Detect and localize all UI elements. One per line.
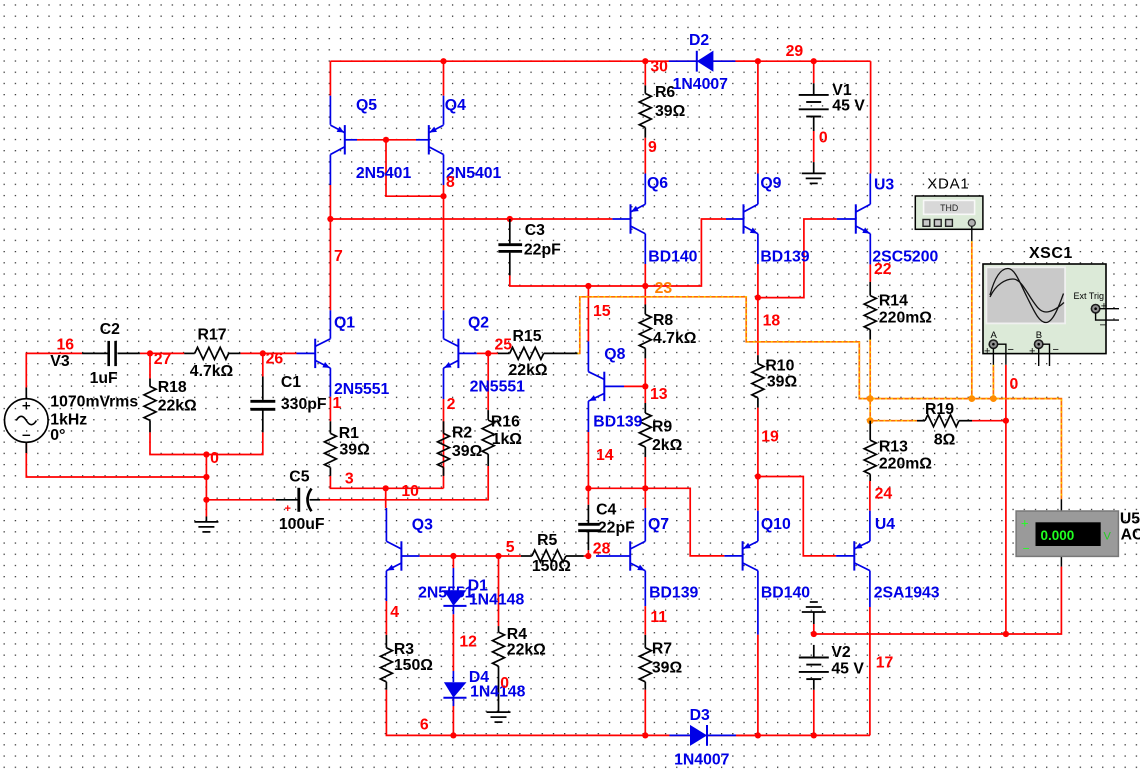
svg-text:1: 1 xyxy=(333,395,342,412)
svg-text:39Ω: 39Ω xyxy=(452,443,483,460)
wire Q9 collector to node 29 xyxy=(757,61,759,173)
svg-text:22kΩ: 22kΩ xyxy=(158,398,197,415)
svg-text:4: 4 xyxy=(390,604,399,621)
net label 30 xyxy=(650,59,668,76)
svg-text:+: + xyxy=(984,346,990,358)
resistor R9 xyxy=(639,403,651,457)
net label 7 xyxy=(334,248,343,265)
net label 24 xyxy=(875,485,893,502)
wire D1 top xyxy=(452,556,454,568)
svg-text:Q3: Q3 xyxy=(412,517,433,534)
net label 8 xyxy=(446,174,455,191)
svg-text:2: 2 xyxy=(447,396,456,413)
svg-text:1uF: 1uF xyxy=(90,370,118,387)
svg-text:U4: U4 xyxy=(875,516,895,533)
svg-text:R2: R2 xyxy=(452,424,472,441)
wire node 13 to Q8 base xyxy=(624,385,645,387)
wire R4 top xyxy=(498,556,500,626)
junction node 14 at Q8 emitter xyxy=(585,485,591,491)
svg-text:27: 27 xyxy=(154,351,172,368)
resistor R7 xyxy=(639,635,651,690)
svg-text:V3: V3 xyxy=(50,353,70,370)
wire R5 right to node 28 xyxy=(584,555,590,557)
wire node 27 to R17 xyxy=(150,352,184,354)
label R13 xyxy=(879,439,932,473)
svg-text:BD139: BD139 xyxy=(593,413,642,430)
wire Q1 emitter to R1 xyxy=(329,397,331,422)
wire +45V top rail node 30/29 xyxy=(330,60,870,62)
svg-text:1070mVrms: 1070mVrms xyxy=(50,393,138,410)
svg-text:−: − xyxy=(1008,344,1014,356)
net label 27 xyxy=(154,351,172,368)
svg-text:Q4: Q4 xyxy=(445,97,466,114)
transistor Q4 2N5401 xyxy=(416,96,444,185)
junction rail at Q10 xyxy=(755,732,761,738)
svg-text:39Ω: 39Ω xyxy=(652,660,683,677)
label D2 xyxy=(673,32,729,93)
net label 14 xyxy=(596,447,614,464)
diode D1 1N4148 xyxy=(443,568,466,614)
svg-text:39Ω: 39Ω xyxy=(767,373,798,390)
wire node 18 to U3 base xyxy=(758,219,837,298)
svg-text:+: + xyxy=(285,503,291,515)
capacitor C1 xyxy=(250,377,275,433)
junction node 3 at Q3 collector xyxy=(383,485,389,491)
net label 11 xyxy=(650,609,667,626)
transistor Q9 BD139 xyxy=(726,174,758,265)
net label 26 xyxy=(266,351,284,368)
resistor R8 xyxy=(639,305,651,359)
svg-text:19: 19 xyxy=(761,429,779,446)
svg-text:100uF: 100uF xyxy=(279,516,325,533)
junction node 5 at R4 xyxy=(495,553,501,559)
svg-text:24: 24 xyxy=(875,485,893,502)
wire C4 top to node 14 row xyxy=(587,488,589,505)
svg-text:U5: U5 xyxy=(1120,510,1140,527)
svg-text:Q6: Q6 xyxy=(647,175,668,192)
svg-text:BD139: BD139 xyxy=(649,584,698,601)
resistor R16 xyxy=(482,410,494,466)
wire node 19 to U4 base xyxy=(758,477,836,556)
diode D3 1N4007 xyxy=(669,725,736,746)
svg-text:0: 0 xyxy=(1010,376,1019,393)
svg-text:XSC1: XSC1 xyxy=(1029,245,1073,262)
svg-text:150Ω: 150Ω xyxy=(532,558,571,575)
label Q9 xyxy=(760,175,809,266)
svg-text:1N4148: 1N4148 xyxy=(469,592,525,609)
junction node 18 xyxy=(755,295,761,301)
junction orange at XDA1 xyxy=(968,395,975,402)
svg-text:Q1: Q1 xyxy=(334,314,355,331)
net label 9 xyxy=(648,139,657,156)
distortion analyzer XDA1 xyxy=(915,196,983,241)
svg-text:V: V xyxy=(1104,531,1112,543)
wire Q2 base to node 25 xyxy=(477,352,489,354)
svg-text:2N5551: 2N5551 xyxy=(334,381,390,398)
resistor R14 xyxy=(864,282,876,340)
junction node 8 xyxy=(440,193,446,199)
transistor Q7 BD139 xyxy=(596,508,645,606)
net label 5 xyxy=(506,539,515,556)
wire U4 collector to node 17 rail xyxy=(869,607,871,735)
wire C4 bottom to node 28 xyxy=(587,550,589,556)
wire Q4 collector to node 8 to Q2 collector xyxy=(443,185,445,310)
ground at V2 inverted xyxy=(802,602,826,624)
svg-text:16: 16 xyxy=(57,336,75,353)
svg-text:22: 22 xyxy=(874,261,892,278)
ground at V1 xyxy=(802,162,826,183)
svg-text:Q9: Q9 xyxy=(760,175,781,192)
wire Q9 emitter to node 18 xyxy=(757,264,759,298)
wire V3 bottom to ground node xyxy=(26,443,206,477)
wire R10 bottom to node 19 xyxy=(757,408,759,477)
svg-text:1N4007: 1N4007 xyxy=(674,752,730,769)
svg-text:4.7kΩ: 4.7kΩ xyxy=(653,330,697,347)
wire Q7 emitter to R7 xyxy=(644,606,646,635)
wire orange R14 bottom drop xyxy=(869,340,871,399)
svg-text:6: 6 xyxy=(420,717,429,734)
net label 1 xyxy=(333,395,342,412)
wire ground row to meter minus xyxy=(814,567,1062,634)
junction rail at V2 xyxy=(811,732,817,738)
svg-text:330pF: 330pF xyxy=(281,396,327,413)
svg-text:+: + xyxy=(1021,516,1029,531)
svg-text:R18: R18 xyxy=(158,379,187,396)
net label 4 xyxy=(390,604,399,621)
svg-text:D2: D2 xyxy=(689,32,709,49)
svg-text:7: 7 xyxy=(334,248,343,265)
wire V1 bottom to ground xyxy=(813,131,815,162)
svg-text:BD140: BD140 xyxy=(761,584,810,601)
junction node 26 xyxy=(260,350,266,356)
wire C5 to R16 bottom xyxy=(320,466,488,500)
label U4 xyxy=(874,516,940,601)
label Q2 xyxy=(468,314,525,395)
wire D4 bottom to rail xyxy=(452,699,454,736)
svg-text:22pF: 22pF xyxy=(598,519,635,536)
junction node 0 at C5 xyxy=(203,497,209,503)
svg-text:C3: C3 xyxy=(525,222,545,239)
battery V2 xyxy=(799,645,829,690)
svg-text:13: 13 xyxy=(650,386,668,403)
wire C3 bottom to node 23 row xyxy=(510,219,726,286)
svg-text:220mΩ: 220mΩ xyxy=(879,310,932,327)
transistor Q5 2N5401 xyxy=(330,96,357,185)
wire V2 plus to ground dot xyxy=(813,624,815,634)
junction node 7 at C3 xyxy=(507,216,513,222)
junction node 25 xyxy=(485,350,491,356)
svg-text:25: 25 xyxy=(495,336,513,353)
wire D2 right to node 29 xyxy=(735,60,758,62)
wire Q5 collector to node 7 rail xyxy=(329,185,331,219)
wire R18 bottom to node 0 row xyxy=(150,432,263,454)
label D1 xyxy=(468,577,525,608)
svg-text:Q7: Q7 xyxy=(648,516,669,533)
svg-text:R19: R19 xyxy=(925,401,954,418)
wire node 19 to Q10 emitter xyxy=(757,477,759,511)
wire Q3 collector to node 3 xyxy=(385,488,387,508)
oscilloscope XSC1 xyxy=(983,264,1119,366)
transistor Q2 2N5551 xyxy=(444,310,477,399)
svg-text:R15: R15 xyxy=(513,328,542,345)
svg-text:18: 18 xyxy=(763,312,781,329)
net label 28 xyxy=(593,541,611,558)
svg-text:2N5551: 2N5551 xyxy=(418,585,474,602)
label R8 xyxy=(653,312,697,347)
wire U3 emitter to R14 node 22 xyxy=(869,264,871,282)
svg-text:Q5: Q5 xyxy=(356,97,377,114)
svg-text:+: + xyxy=(1029,346,1035,358)
svg-text:−: − xyxy=(1023,542,1030,556)
wire output net orange from R15 to meter xyxy=(578,297,1062,499)
svg-text:4.7kΩ: 4.7kΩ xyxy=(190,363,234,380)
svg-text:2SA1943: 2SA1943 xyxy=(874,584,940,601)
svg-text:R10: R10 xyxy=(765,358,794,375)
svg-text:1kΩ: 1kΩ xyxy=(492,431,523,448)
svg-text:V2: V2 xyxy=(831,644,851,661)
wire orange to R19 left and R13 top xyxy=(870,399,917,421)
net label 6 xyxy=(420,717,429,734)
svg-text:14: 14 xyxy=(596,447,614,464)
junction node 29 at V1 xyxy=(811,58,817,64)
label Q8 xyxy=(593,346,642,430)
resistor R4 xyxy=(493,626,505,712)
wire orange XDA1 lead drop xyxy=(971,241,973,398)
svg-text:BD139: BD139 xyxy=(760,249,809,266)
wire Q3 base to node 5 row xyxy=(420,555,521,557)
svg-text:Q10: Q10 xyxy=(761,516,791,533)
svg-text:39Ω: 39Ω xyxy=(655,103,686,120)
svg-text:R1: R1 xyxy=(339,425,359,442)
label U5 meter xyxy=(1120,510,1140,543)
junction ground row at scope lead xyxy=(1003,631,1009,637)
net label 0 at scope xyxy=(1010,376,1019,393)
junction node 7 at Q5 collector xyxy=(327,216,333,222)
resistor R10 xyxy=(752,355,764,407)
net label 0 at R4 xyxy=(500,675,509,692)
junction Q4 emitter rail xyxy=(440,58,446,64)
transistor Q1 2N5551 xyxy=(297,310,331,396)
label V1 xyxy=(832,82,865,115)
junction rail at D4 xyxy=(450,732,456,738)
svg-text:R4: R4 xyxy=(507,626,527,643)
resistor R19 xyxy=(917,415,972,427)
svg-text:11: 11 xyxy=(650,609,667,626)
ground at R4 xyxy=(487,712,511,722)
wire node 27 down to R18 xyxy=(149,353,151,378)
ground at node 0 xyxy=(194,517,218,532)
transistor U4 2SA1943 xyxy=(836,511,870,607)
svg-text:0: 0 xyxy=(210,450,219,467)
svg-text:THD: THD xyxy=(940,203,958,213)
wire R8 bottom node 13 xyxy=(644,358,646,386)
junction rail at R7 xyxy=(642,732,648,738)
junction node 23 at Q8 xyxy=(585,283,591,289)
transistor Q6 BD140 xyxy=(612,174,645,265)
net label 2 xyxy=(447,396,456,413)
label R7 xyxy=(652,641,683,677)
wire R3 bottom to node 6 rail xyxy=(386,690,870,736)
label C2 xyxy=(90,321,121,387)
svg-text:220mΩ: 220mΩ xyxy=(879,456,932,473)
junction node 13 xyxy=(642,383,648,389)
label Q6 xyxy=(647,175,698,266)
svg-text:22kΩ: 22kΩ xyxy=(509,362,548,379)
resistor R1 xyxy=(324,421,336,476)
wire R7 bottom to rail xyxy=(644,690,646,736)
wire C2 to node 27 xyxy=(140,352,150,354)
svg-text:R14: R14 xyxy=(879,293,908,310)
label D3 xyxy=(674,707,730,768)
svg-text:0°: 0° xyxy=(50,427,65,444)
title XDA1 xyxy=(927,176,969,193)
label C3 xyxy=(524,222,561,258)
svg-text:2N5551: 2N5551 xyxy=(470,378,526,395)
net label 10 xyxy=(401,483,419,500)
label Q10 xyxy=(761,516,810,601)
label R9 xyxy=(652,419,683,455)
label R3 xyxy=(394,641,433,674)
junction node 5 at D1 xyxy=(450,553,456,559)
wire R6 bottom to Q6 emitter node 9 xyxy=(644,138,646,174)
wire Q7 collector to node 14 row xyxy=(644,488,646,508)
diode D2 1N4007 xyxy=(669,51,736,72)
svg-text:C1: C1 xyxy=(281,374,301,391)
AC source V3 xyxy=(5,388,49,454)
capacitor C4 xyxy=(578,505,600,550)
svg-text:26: 26 xyxy=(266,351,284,368)
polarized capacitor C5 xyxy=(276,488,320,515)
svg-text:22kΩ: 22kΩ xyxy=(507,642,546,659)
svg-text:R16: R16 xyxy=(491,413,520,430)
wire node 18 to R10 xyxy=(757,298,759,356)
resistor R15 xyxy=(498,347,578,359)
svg-text:R3: R3 xyxy=(394,641,414,658)
label V3 source xyxy=(50,353,138,444)
svg-text:2kΩ: 2kΩ xyxy=(652,437,683,454)
net label 17 xyxy=(876,655,894,672)
wire node 7 down to Q1 collector xyxy=(329,219,331,310)
svg-text:10: 10 xyxy=(401,483,419,500)
label Q3 xyxy=(412,517,474,602)
capacitor C3 xyxy=(498,219,522,275)
wire Q8 emitter to node 14 row xyxy=(587,432,589,488)
resistor R5 xyxy=(521,550,584,562)
wire node 0 to C5 xyxy=(206,499,276,501)
wire node 25 down to R16 xyxy=(487,353,489,410)
junction node 27 xyxy=(147,350,153,356)
junction orange at R19 left xyxy=(867,417,874,424)
svg-text:U3: U3 xyxy=(874,177,894,194)
label R6 xyxy=(655,84,686,120)
wire V2 minus to rail xyxy=(813,690,815,736)
svg-text:5: 5 xyxy=(506,539,515,556)
label R17 xyxy=(190,327,234,381)
label Q1 xyxy=(334,314,390,398)
junction ground row at V2 xyxy=(811,631,817,637)
net label 0 at R18 xyxy=(210,450,219,467)
svg-text:R9: R9 xyxy=(652,419,672,436)
label V2 xyxy=(831,644,864,678)
junction node 14 at R9 xyxy=(642,485,648,491)
resistor R17 xyxy=(184,347,240,359)
transistor U3 2SC5200 xyxy=(837,174,871,265)
label R2 xyxy=(452,424,483,460)
wire R6 top at node 30 xyxy=(644,61,646,85)
net label 25 xyxy=(495,336,513,353)
wire Q2 emitter to node 3 rail xyxy=(443,399,445,488)
title XSC1 xyxy=(1029,245,1073,262)
svg-text:0.000: 0.000 xyxy=(1041,528,1075,543)
capacitor C2 xyxy=(82,341,140,366)
transistor Q10 BD140 xyxy=(724,511,758,635)
wire R13 bottom to U4 emitter node 24 xyxy=(869,481,871,511)
net label 13 xyxy=(650,386,668,403)
svg-text:Q8: Q8 xyxy=(604,346,625,363)
wire base tie down to Q4 collector node 8 xyxy=(386,140,444,196)
junction node 30 xyxy=(642,58,648,64)
svg-text:29: 29 xyxy=(786,43,804,60)
junction orange at scope A xyxy=(990,395,997,402)
svg-text:D3: D3 xyxy=(690,707,710,724)
svg-text:Q2: Q2 xyxy=(468,314,489,331)
wire node 26 down to C1 xyxy=(262,353,264,376)
wire R9 bottom to node 14 row xyxy=(644,457,646,488)
svg-text:R5: R5 xyxy=(537,532,557,549)
svg-text:+: + xyxy=(1101,301,1107,313)
wire Q5 emitter to rail xyxy=(329,61,331,95)
svg-text:8: 8 xyxy=(446,174,455,191)
svg-text:AC: AC xyxy=(1121,527,1140,544)
svg-text:28: 28 xyxy=(593,541,611,558)
svg-text:150Ω: 150Ω xyxy=(394,657,433,674)
junction R19 right node 0 xyxy=(1003,418,1009,424)
label D4 xyxy=(469,669,526,700)
junction orange at R14/R19 xyxy=(867,395,874,402)
svg-text:45 V: 45 V xyxy=(832,98,865,115)
label Q4 xyxy=(445,97,502,182)
junction node 0 upper xyxy=(203,451,209,457)
svg-text:9: 9 xyxy=(648,139,657,156)
resistor R2 xyxy=(438,421,450,476)
diode D4 1N4148 xyxy=(443,671,466,706)
label R16 xyxy=(491,413,522,448)
wire R17 to node 26 xyxy=(240,352,262,354)
wire D1 to D4 node 12 xyxy=(452,614,454,671)
wire node 25 to R15 xyxy=(488,352,498,354)
net label 19 xyxy=(761,429,779,446)
svg-text:−: − xyxy=(1100,320,1106,332)
wire Q6 collector to node 23 xyxy=(644,264,646,286)
label Q7 xyxy=(648,516,698,601)
resistor R13 xyxy=(864,421,876,481)
wire node 13 to R9 xyxy=(644,386,646,403)
svg-text:C4: C4 xyxy=(596,501,616,518)
svg-text:1N4148: 1N4148 xyxy=(470,684,526,701)
junction node 19 xyxy=(755,473,761,479)
label R5 xyxy=(532,532,571,575)
svg-text:8Ω: 8Ω xyxy=(934,432,956,449)
svg-text:R7: R7 xyxy=(652,641,672,658)
svg-text:30: 30 xyxy=(650,59,668,76)
label Q5 xyxy=(356,97,412,182)
net label 22 xyxy=(874,261,892,278)
transistor Q3 2N5551 xyxy=(386,508,419,601)
svg-text:R17: R17 xyxy=(198,327,227,344)
net label 0 at V1 xyxy=(819,130,828,147)
label C4 xyxy=(596,501,635,536)
svg-text:C2: C2 xyxy=(100,321,120,338)
